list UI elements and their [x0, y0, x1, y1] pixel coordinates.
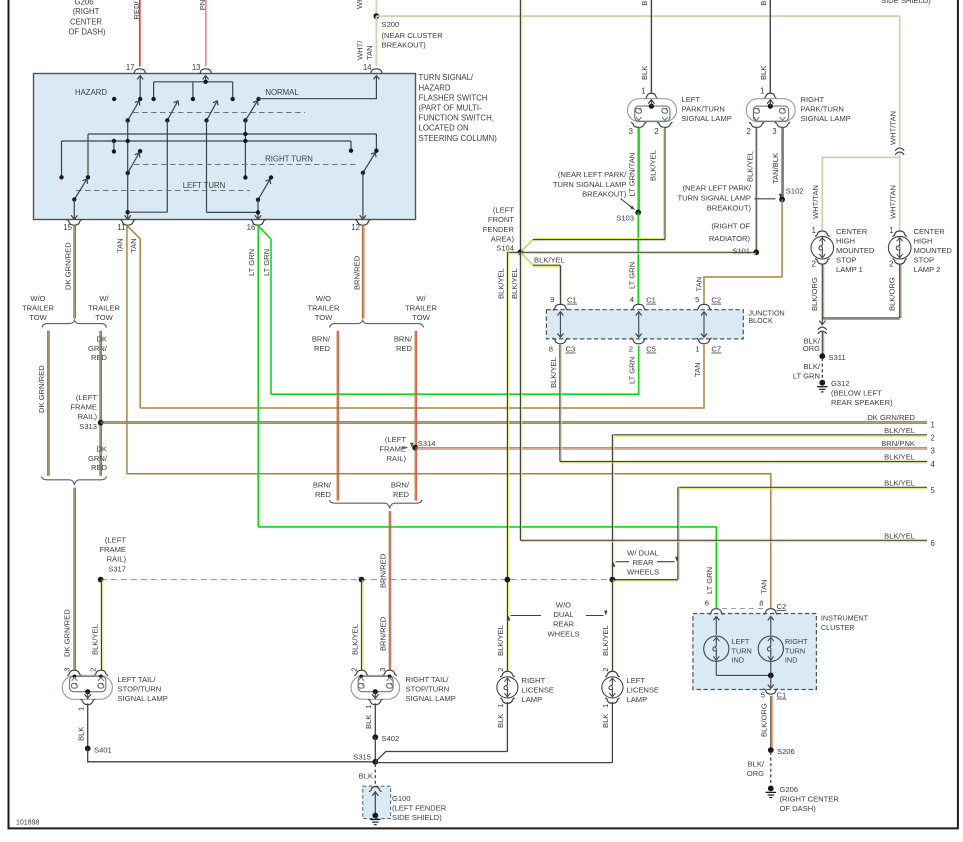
- left turn blade pin11: [128, 153, 139, 173]
- wire LT GRN pin 16 to junction block C5: [258, 226, 271, 239]
- svg-text:SIGNAL LAMP: SIGNAL LAMP: [682, 114, 732, 123]
- svg-text:TAN: TAN: [115, 238, 124, 253]
- svg-text:GRN/: GRN/: [88, 344, 108, 353]
- svg-text:S104: S104: [496, 244, 514, 253]
- wire to pin 5: [770, 675, 772, 687]
- splice S315: [372, 759, 378, 765]
- svg-text:WHEELS: WHEELS: [547, 629, 579, 638]
- pin 1 left license lamp: [605, 698, 620, 703]
- svg-text:LICENSE: LICENSE: [522, 686, 555, 695]
- pin 3 right park lamp: [775, 122, 790, 127]
- wire DK GRN/RED to left tail lamp: [73, 488, 75, 671]
- svg-text:RIGHT: RIGHT: [801, 95, 825, 104]
- wire BLK left license to S315: [611, 702, 613, 763]
- svg-text:(LEFT: (LEFT: [76, 393, 97, 402]
- svg-text:101898: 101898: [16, 820, 39, 827]
- svg-text:LT GRN: LT GRN: [627, 262, 636, 289]
- right license lamp: [497, 677, 518, 698]
- svg-text:(PART OF MULTI-: (PART OF MULTI-: [419, 104, 483, 113]
- svg-text:2: 2: [812, 260, 816, 269]
- svg-text:LT GRN: LT GRN: [705, 567, 714, 594]
- svg-text:SIDE SHIELD): SIDE SHIELD): [392, 813, 442, 822]
- svg-text:BRN/: BRN/: [391, 481, 410, 490]
- pole wire blade4 down: [244, 121, 246, 178]
- switch bus1: [88, 133, 376, 135]
- svg-text:WHEELS: WHEELS: [627, 568, 659, 577]
- wire PNK feed to switch pin 13: [205, 0, 207, 67]
- wire BLK/YEL right lamp pin2 to S101: [755, 128, 757, 253]
- svg-text:TOW: TOW: [95, 313, 113, 322]
- svg-text:1: 1: [889, 226, 893, 235]
- left license lamp: [602, 677, 623, 698]
- svg-text:BLK: BLK: [76, 727, 85, 741]
- wire BLK/YEL circuit 5 drop: [677, 487, 679, 579]
- bus drop middle: [192, 82, 194, 99]
- svg-text:BRN/PNK: BRN/PNK: [881, 439, 915, 448]
- svg-text:5: 5: [761, 691, 765, 700]
- G100 internal wire: [369, 787, 382, 792]
- svg-text:1: 1: [931, 420, 935, 429]
- svg-text:FRONT: FRONT: [488, 215, 515, 224]
- svg-text:8: 8: [759, 599, 763, 608]
- svg-text:CLUSTER: CLUSTER: [821, 623, 855, 632]
- switch feed bus from pin 13: [154, 81, 233, 83]
- svg-text:13: 13: [192, 63, 201, 72]
- switch bus2: [62, 140, 352, 142]
- svg-text:BLK/YEL: BLK/YEL: [884, 426, 915, 435]
- pin 8 cluster: [764, 609, 779, 615]
- wire WHT/TAN from top to splice S200: [375, 0, 377, 16]
- bus2 left contact drop: [61, 141, 63, 177]
- wire DK GRN/RED horizontal circuit 1: [101, 421, 927, 423]
- svg-text:S103: S103: [616, 214, 634, 223]
- wire BLK/ORG lamp2 join lamp1: [822, 317, 899, 319]
- wire BLK/YEL S317 to left tail lamp pin 2: [100, 580, 102, 671]
- inline connector on BLK/ORG: [818, 327, 827, 330]
- svg-text:BLK: BLK: [759, 0, 768, 6]
- svg-text:4: 4: [931, 460, 936, 469]
- wire LT GRN/TAN lamp pin3 to S103: [637, 128, 639, 213]
- pin 15 exit wire: [73, 200, 75, 219]
- left turn blade pin15: [74, 179, 87, 199]
- svg-text:(NEAR LEFT PARK/: (NEAR LEFT PARK/: [558, 170, 627, 179]
- svg-text:RIGHT TURN: RIGHT TURN: [265, 155, 313, 164]
- wire BLK/YEL S104 to S101: [520, 251, 756, 253]
- junction dot right tail pin2 wire: [359, 577, 365, 583]
- svg-text:ORG: ORG: [747, 769, 764, 778]
- svg-text:(BELOW LEFT: (BELOW LEFT: [831, 388, 882, 397]
- arrow to S103: [621, 199, 632, 208]
- svg-text:3: 3: [931, 446, 935, 455]
- svg-text:BLK: BLK: [640, 0, 649, 6]
- connector C2 dashes: [722, 608, 764, 610]
- svg-text:3: 3: [772, 127, 776, 136]
- svg-text:G312: G312: [831, 379, 850, 388]
- wire BLK right license to S315: [506, 702, 508, 752]
- svg-text:2: 2: [654, 127, 658, 136]
- wire DK GRN/RED from pin 15: [73, 226, 75, 319]
- pin 6 cluster: [709, 609, 724, 615]
- svg-text:FRAME: FRAME: [379, 445, 406, 454]
- connector C1 pin 4: [631, 304, 646, 310]
- junction block internal wire: [638, 313, 640, 337]
- svg-text:CENTER: CENTER: [70, 17, 102, 26]
- ground G100 box: [363, 786, 391, 818]
- connector C5 pin 2: [631, 338, 646, 344]
- wire BLK left park lamp to top: [650, 0, 652, 93]
- svg-text:(RIGHT OF: (RIGHT OF: [711, 222, 750, 231]
- svg-text:WHT/TAN: WHT/TAN: [888, 185, 897, 219]
- svg-text:AREA): AREA): [491, 234, 515, 243]
- pin 11 exit wire: [127, 173, 129, 218]
- wire BLK left tail to S401: [87, 703, 89, 748]
- brace BRN/RED rejoin: [330, 500, 423, 509]
- svg-text:6: 6: [705, 599, 709, 608]
- svg-text:8: 8: [549, 345, 553, 354]
- wire BLK/YEL S104 stub left: [507, 251, 520, 253]
- svg-text:W/O: W/O: [556, 601, 571, 610]
- wire BLK/ORG cluster to S206: [770, 696, 772, 750]
- center high mounted stop lamp 2: [888, 236, 911, 259]
- svg-text:BLK/ORG: BLK/ORG: [759, 703, 768, 737]
- svg-text:RIGHT TAIL/: RIGHT TAIL/: [406, 675, 450, 684]
- splice S200: [374, 13, 380, 19]
- svg-text:FLASHER SWITCH: FLASHER SWITCH: [419, 93, 488, 102]
- switch pin 17 internal wire: [139, 77, 141, 99]
- bus2 stub contact: [113, 141, 115, 152]
- svg-text:BLK/YEL: BLK/YEL: [496, 268, 505, 299]
- svg-text:WHT/TAN: WHT/TAN: [355, 0, 364, 9]
- svg-text:STOP/TURN: STOP/TURN: [118, 685, 162, 694]
- svg-text:TURN: TURN: [732, 646, 752, 655]
- svg-text:TURN: TURN: [785, 646, 805, 655]
- wire BLK right tail to S402: [374, 703, 376, 737]
- svg-text:LEFT TAIL/: LEFT TAIL/: [118, 675, 157, 684]
- svg-text:S315: S315: [353, 753, 371, 762]
- svg-text:BLK: BLK: [759, 66, 768, 80]
- normal contact and wire to pin 14: [256, 97, 260, 101]
- ground G206: [768, 786, 774, 792]
- svg-text:S314: S314: [418, 439, 436, 448]
- svg-text:BLK/YEL: BLK/YEL: [350, 624, 359, 655]
- svg-text:LAMP 1: LAMP 1: [836, 265, 863, 274]
- left turn contact near pin 11: [138, 149, 142, 153]
- wire BRN/RED from pin 12: [362, 226, 364, 319]
- svg-text:RADIATOR): RADIATOR): [709, 234, 751, 243]
- wire BRN/PNK horizontal circuit 3: [415, 447, 927, 449]
- wire TAN S102 to junction block C2-5: [781, 199, 783, 277]
- wire BLK/YEL from top to S104: [519, 0, 521, 252]
- bus1 right contact drop: [375, 134, 377, 151]
- splice S311: [819, 353, 825, 359]
- bus drop right: [232, 82, 234, 99]
- pin 1 right license lamp: [500, 698, 515, 703]
- connector C3 pin 8: [553, 338, 568, 344]
- pin 12 exit wire: [362, 173, 364, 219]
- svg-text:5: 5: [695, 295, 699, 304]
- svg-text:W/: W/: [99, 294, 109, 303]
- svg-text:TRAILER: TRAILER: [405, 304, 438, 313]
- svg-text:OF DASH): OF DASH): [68, 27, 106, 36]
- svg-text:TOW: TOW: [412, 313, 430, 322]
- svg-text:(RIGHT: (RIGHT: [73, 7, 100, 16]
- svg-text:TAN: TAN: [129, 238, 138, 253]
- svg-text:2: 2: [629, 345, 633, 354]
- svg-text:PNK: PNK: [198, 0, 207, 10]
- pin 5 cluster connector C1: [764, 689, 779, 694]
- svg-text:IND: IND: [785, 656, 798, 665]
- right turn indicator wire up: [770, 618, 772, 635]
- svg-text:2: 2: [889, 260, 893, 269]
- svg-text:2: 2: [89, 667, 98, 671]
- svg-text:RED: RED: [314, 344, 331, 353]
- wire BLK/YEL horizontal circuit 2: [612, 434, 927, 436]
- svg-text:HAZARD: HAZARD: [75, 88, 107, 97]
- inline connector on WHT/TAN: [895, 148, 904, 151]
- pole wire to pin 11: [127, 121, 129, 174]
- svg-text:OF DASH): OF DASH): [780, 804, 817, 813]
- svg-text:STOP: STOP: [836, 256, 857, 265]
- svg-text:TURN SIGNAL/: TURN SIGNAL/: [419, 73, 474, 82]
- svg-text:1: 1: [641, 87, 645, 96]
- svg-text:BLK/YEL: BLK/YEL: [884, 478, 915, 487]
- splice S314: [412, 445, 418, 451]
- junction block box: [546, 310, 743, 339]
- svg-text:(NEAR CLUSTER: (NEAR CLUSTER: [382, 31, 444, 40]
- svg-text:HIGH: HIGH: [914, 237, 933, 246]
- wire BLK/YEL S104 to right license lamp: [506, 252, 508, 671]
- splice S206: [768, 747, 774, 753]
- svg-text:G100: G100: [392, 794, 411, 803]
- svg-text:WHT/TAN: WHT/TAN: [811, 185, 820, 219]
- svg-text:BLK/ORG: BLK/ORG: [887, 277, 896, 311]
- svg-text:HAZARD: HAZARD: [419, 83, 451, 92]
- svg-text:SIGNAL LAMP: SIGNAL LAMP: [406, 694, 456, 703]
- pin 1 right tail lamp: [368, 699, 383, 704]
- svg-text:LT GRN: LT GRN: [628, 357, 637, 384]
- svg-text:BLK/YEL: BLK/YEL: [496, 625, 505, 656]
- svg-text:C1: C1: [646, 296, 656, 305]
- wire BLK/YEL S104 to junction block C1-9: [520, 252, 533, 265]
- right turn linkage dashed: [134, 164, 359, 166]
- svg-text:TAN: TAN: [694, 277, 703, 292]
- svg-text:PARK/TURN: PARK/TURN: [801, 105, 844, 114]
- svg-text:BLK/YEL: BLK/YEL: [549, 357, 558, 388]
- svg-text:WHT/: WHT/: [355, 40, 364, 60]
- wire BLK/YEL circuit 2 drop to license dot: [611, 435, 613, 580]
- pin 3 left park lamp: [631, 122, 646, 127]
- svg-text:BLK/YEL: BLK/YEL: [884, 453, 915, 462]
- svg-text:BLK/YEL: BLK/YEL: [601, 625, 610, 656]
- svg-text:DK GRN/RED: DK GRN/RED: [37, 365, 46, 413]
- right turn blade pin12: [363, 153, 376, 173]
- brace BRN/RED trailer tow split: [330, 320, 424, 327]
- svg-text:BLK: BLK: [640, 66, 649, 80]
- svg-text:S311: S311: [829, 353, 846, 362]
- splice S313: [98, 420, 104, 426]
- svg-text:(LEFT: (LEFT: [493, 206, 514, 215]
- left turn indicator wire up: [715, 618, 717, 635]
- wire BLK S315 to G100 dashed: [374, 764, 376, 786]
- svg-text:LT GRN: LT GRN: [262, 249, 271, 276]
- indicator common wire: [715, 661, 717, 675]
- wire WHT/TAN S200 to right side: [376, 15, 899, 17]
- svg-text:S401: S401: [94, 745, 112, 754]
- svg-text:STOP: STOP: [914, 256, 935, 265]
- svg-text:W/O: W/O: [30, 294, 45, 303]
- wire BRN/RED w/o trailer branch: [336, 331, 338, 501]
- switch blade 2: [167, 101, 178, 121]
- svg-text:FENDER: FENDER: [483, 225, 515, 234]
- wire WHT/TAN S200 to switch pin 14: [375, 16, 377, 66]
- svg-text:2: 2: [746, 127, 750, 136]
- wire BLK/YEL to right tail lamp pin 2: [361, 580, 363, 671]
- svg-text:BLK/YEL: BLK/YEL: [884, 531, 915, 540]
- svg-text:TOW: TOW: [315, 313, 333, 322]
- svg-text:6: 6: [931, 539, 935, 548]
- svg-text:LT GRN: LT GRN: [793, 371, 820, 380]
- pole wire blade2 down: [166, 121, 168, 213]
- pin 1 left tail lamp: [80, 699, 95, 704]
- switch contact pin17: [138, 97, 142, 101]
- right tail/stop/turn signal lamp: [351, 676, 400, 700]
- hazard position contact: [112, 97, 116, 101]
- svg-text:2: 2: [601, 667, 610, 671]
- splice S401: [85, 746, 91, 752]
- wire BLK S401 to S315: [88, 749, 376, 762]
- svg-text:C1: C1: [567, 296, 577, 305]
- svg-text:S206: S206: [777, 747, 795, 756]
- connector C1 pin 9: [553, 304, 568, 310]
- svg-text:2: 2: [931, 433, 935, 442]
- svg-text:DK GRN/RED: DK GRN/RED: [62, 609, 71, 657]
- svg-text:BREAKOUT): BREAKOUT): [707, 203, 752, 212]
- svg-text:S200: S200: [382, 20, 400, 29]
- junction block internal wire: [703, 313, 705, 337]
- svg-text:1: 1: [812, 226, 816, 235]
- svg-text:2: 2: [496, 667, 505, 671]
- svg-text:(LEFT: (LEFT: [105, 536, 126, 545]
- svg-text:WHT/TAN: WHT/TAN: [888, 111, 897, 145]
- svg-text:LOCATED ON: LOCATED ON: [419, 124, 469, 133]
- svg-text:(LEFT: (LEFT: [385, 435, 406, 444]
- svg-text:INSTRUMENT: INSTRUMENT: [821, 613, 869, 622]
- connector C7 pin 1: [696, 338, 711, 344]
- svg-text:S313: S313: [79, 422, 97, 431]
- svg-text:1: 1: [364, 705, 373, 709]
- wire BLK/YEL junction C3 to circuit 4: [559, 345, 561, 462]
- svg-text:CENTER: CENTER: [914, 227, 946, 236]
- svg-text:BRN/: BRN/: [394, 335, 413, 344]
- brace trailer tow rejoin: [42, 476, 107, 485]
- svg-text:SIDE SHIELD): SIDE SHIELD): [881, 0, 931, 5]
- pole wire blade3 down: [206, 121, 208, 213]
- svg-text:IND: IND: [732, 656, 745, 665]
- wire LT GRN pin 16 to instrument cluster: [257, 226, 259, 527]
- svg-text:C2: C2: [777, 602, 787, 611]
- svg-text:BLK/YEL: BLK/YEL: [510, 268, 519, 299]
- pin 16 contact: [269, 175, 273, 179]
- wire BRN/RED w/ trailer branch: [414, 331, 416, 501]
- svg-text:CENTER: CENTER: [836, 227, 868, 236]
- svg-text:RAIL): RAIL): [107, 555, 127, 564]
- svg-text:TAN: TAN: [693, 362, 702, 377]
- svg-text:LAMP: LAMP: [627, 695, 648, 704]
- svg-text:BLK: BLK: [364, 715, 373, 729]
- svg-text:BRN/: BRN/: [312, 335, 331, 344]
- svg-text:PARK/TURN: PARK/TURN: [682, 105, 725, 114]
- svg-text:LT GRN: LT GRN: [247, 249, 256, 276]
- svg-text:TRAILER: TRAILER: [88, 304, 121, 313]
- pin 2 right park lamp: [749, 122, 764, 127]
- svg-text:REAR: REAR: [553, 620, 575, 629]
- svg-text:BRN/: BRN/: [313, 481, 332, 490]
- svg-text:FRAME: FRAME: [99, 545, 126, 554]
- svg-text:TRAILER: TRAILER: [307, 304, 340, 313]
- switch blade 3: [207, 101, 218, 121]
- wire DK GRN/RED w/ trailer branch: [99, 331, 101, 476]
- wire BRN/RED to right tail lamp: [388, 511, 390, 670]
- svg-text:G206: G206: [780, 785, 799, 794]
- svg-text:2: 2: [350, 667, 359, 671]
- svg-text:BLK/ORG: BLK/ORG: [810, 277, 819, 311]
- svg-text:BLK/: BLK/: [804, 362, 821, 371]
- svg-text:BLK: BLK: [359, 771, 373, 780]
- wire WHT/TAN to stop lamp 2: [899, 157, 901, 231]
- svg-text:REAR SPEAKER): REAR SPEAKER): [831, 398, 893, 407]
- svg-text:14: 14: [363, 63, 372, 72]
- pin 2 left park lamp: [657, 122, 672, 127]
- svg-text:TOW: TOW: [29, 313, 47, 322]
- splice S317: [98, 577, 104, 583]
- svg-text:4: 4: [630, 295, 634, 304]
- svg-text:G206: G206: [74, 0, 93, 7]
- hazard linkage dashed: [133, 112, 305, 114]
- svg-text:DK: DK: [96, 445, 107, 454]
- right turn indicator bulb: [758, 636, 783, 661]
- junction dot left license wire: [610, 577, 616, 583]
- switch blade 4: [245, 101, 257, 121]
- wire BLK/YEL S104 down to circuit 6: [519, 252, 521, 540]
- wire BLK S402 to S315: [374, 737, 376, 762]
- svg-text:3: 3: [378, 667, 387, 671]
- svg-text:FUNCTION SWITCH,: FUNCTION SWITCH,: [419, 114, 494, 123]
- svg-text:1: 1: [760, 87, 764, 96]
- wire TAN pin 11 to instrument cluster: [126, 226, 128, 474]
- bus drop left: [153, 82, 155, 99]
- arrow into connector: [819, 321, 825, 325]
- instrument cluster box: [693, 614, 817, 690]
- junction dot right license wire: [505, 577, 511, 583]
- splice option brace trailer tow split: [42, 320, 107, 327]
- svg-text:LEFT: LEFT: [682, 95, 701, 104]
- wire BLK/ORG stop lamp 2 down: [899, 264, 901, 318]
- pin 2 right tail lamp: [354, 670, 369, 675]
- svg-text:SIGNAL LAMP: SIGNAL LAMP: [801, 114, 851, 123]
- bus1 left contact drop: [87, 134, 89, 177]
- pin 2 left license lamp: [605, 671, 620, 676]
- wire WHT/TAN to stop lamp 1: [822, 157, 899, 231]
- wire BLK/YEL circuit 5 link to license dot: [612, 579, 678, 581]
- center high mounted stop lamp 1: [811, 236, 834, 259]
- svg-text:17: 17: [126, 63, 135, 72]
- left turn linkage dashed: [76, 190, 250, 192]
- wire WHT/TAN right vertical run: [899, 16, 901, 146]
- svg-text:BLK: BLK: [496, 714, 505, 728]
- wire LT GRN S103 to junction block C1-4: [637, 212, 639, 305]
- turn signal / hazard flasher switch box: [34, 74, 416, 220]
- svg-text:MOUNTED: MOUNTED: [836, 246, 875, 255]
